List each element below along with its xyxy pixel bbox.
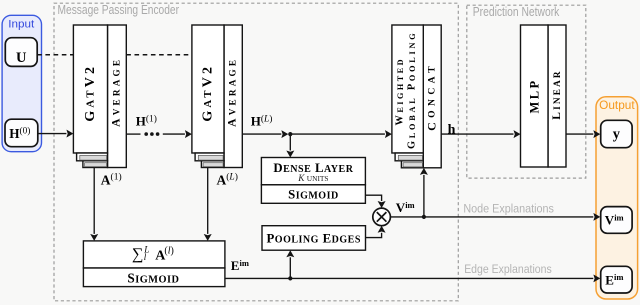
svg-text:Vim: Vim <box>396 200 415 215</box>
svg-text:CONCAT: CONCAT <box>425 62 439 131</box>
svg-text:H(1): H(1) <box>136 113 157 128</box>
svg-text:U: U <box>16 50 27 66</box>
svg-text:Input: Input <box>8 18 35 30</box>
svg-text:Edge Explanations: Edge Explanations <box>464 262 552 276</box>
svg-text:SIGMOID: SIGMOID <box>288 188 339 202</box>
svg-text:DENSE LAYER: DENSE LAYER <box>273 161 353 175</box>
svg-text:h: h <box>448 122 456 137</box>
svg-text:MLP: MLP <box>527 79 541 114</box>
svg-text:Output: Output <box>599 100 635 112</box>
svg-text:GATV2: GATV2 <box>200 64 215 122</box>
svg-text:POOLING EDGES: POOLING EDGES <box>266 231 360 245</box>
svg-text:AVERAGE: AVERAGE <box>110 57 122 127</box>
svg-text:H(L): H(L) <box>251 113 273 128</box>
svg-text:∑: ∑ <box>132 245 144 263</box>
svg-text:y: y <box>613 127 621 143</box>
svg-text:(l): (l) <box>164 246 173 257</box>
svg-text:GLOBAL POOLING: GLOBAL POOLING <box>407 31 418 149</box>
svg-text:AVERAGE: AVERAGE <box>226 57 238 127</box>
svg-text:A(1): A(1) <box>101 172 122 188</box>
svg-text:Node Explanations: Node Explanations <box>463 201 554 215</box>
svg-text:K UNITS: K UNITS <box>297 174 328 184</box>
svg-text:GATV2: GATV2 <box>83 64 98 122</box>
svg-text:WEIGHTED: WEIGHTED <box>395 57 406 126</box>
svg-text:A(L): A(L) <box>217 172 238 188</box>
svg-text:LINEAR: LINEAR <box>551 69 563 119</box>
svg-text:Prediction Network: Prediction Network <box>473 5 560 19</box>
svg-text:Message Passing Encoder: Message Passing Encoder <box>58 3 180 17</box>
svg-text:Eim: Eim <box>231 258 249 273</box>
